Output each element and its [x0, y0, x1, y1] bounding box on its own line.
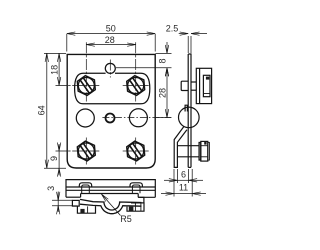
screw top-right hex+circle+slot [127, 76, 145, 96]
side view bottom screw [177, 141, 209, 161]
dimension 8 right [116, 42, 172, 76]
side view top screw assembly [181, 68, 211, 103]
svg-text:64: 64 [36, 105, 46, 115]
svg-text:9: 9 [49, 156, 59, 161]
svg-text:18: 18 [50, 65, 60, 75]
center lines for screws and holes [56, 42, 172, 164]
front view plate outline [67, 54, 155, 168]
side view bent strip to prong [174, 127, 187, 168]
middle row right hole [129, 109, 147, 127]
dimension 28 right [156, 68, 172, 118]
dimension texts [36, 24, 188, 224]
svg-text:11: 11 [179, 182, 188, 192]
dimension 64 left [44, 53, 66, 168]
dimension 18 left [58, 53, 60, 85]
bottom view band stack [66, 180, 155, 198]
dimension 9 left [58, 144, 60, 176]
dimension 28 top [86, 44, 135, 46]
dimension 50 top [67, 34, 155, 52]
bottom view left clamp block [72, 200, 95, 213]
side view plate [188, 54, 191, 167]
side view upper strip stub [185, 105, 187, 111]
stadium slot around top screws [75, 73, 150, 104]
svg-text:28: 28 [105, 35, 115, 45]
side view conductor circle [179, 107, 200, 128]
screw bottom-left hex+circle+slot [77, 141, 95, 161]
bottom view right clamp block [127, 197, 144, 211]
svg-text:50: 50 [106, 24, 116, 34]
svg-text:3: 3 [46, 186, 56, 191]
dimension 11 below side view [161, 169, 206, 197]
middle row center ring [106, 114, 115, 123]
dimension 6 below side view [164, 169, 203, 183]
bottom view saddle strip with R5 dip [80, 199, 142, 213]
R5 leader line [101, 194, 120, 216]
svg-text:2.5: 2.5 [166, 24, 179, 34]
screw bottom-right hex+circle+slot [127, 141, 145, 161]
dimension 3 left of bottom view [52, 192, 77, 213]
screw top-left hex+circle+slot [77, 76, 95, 96]
svg-text:R5: R5 [120, 214, 132, 224]
bottom view right screw head dome [130, 183, 142, 194]
svg-text:6: 6 [181, 170, 186, 180]
middle row left hole [76, 109, 94, 127]
svg-text:28: 28 [157, 88, 167, 98]
small hole top center [105, 63, 115, 73]
dimension 2.5 top of side view [179, 34, 207, 53]
svg-text:8: 8 [158, 58, 168, 63]
bottom view left screw head dome [79, 183, 91, 194]
